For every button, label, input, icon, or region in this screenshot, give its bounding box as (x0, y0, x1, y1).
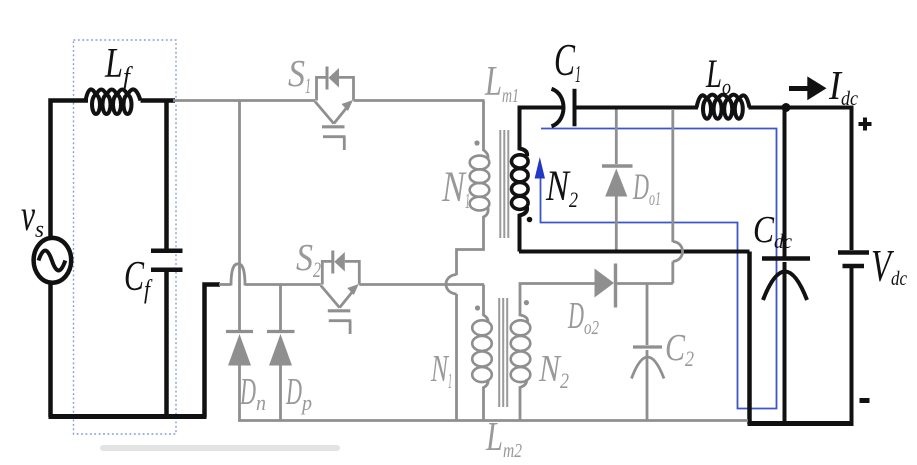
transformer1 dot primary (474, 140, 479, 145)
wire hop of N1 lead over S2 rail (446, 275, 457, 295)
wire vs top (51, 101, 89, 238)
wire bottom left rail (49, 414, 207, 419)
wire gray top rail Cf to S1 (173, 99, 315, 102)
wire Do2 cathode to C2 junction (616, 282, 673, 285)
diode of S1 (329, 68, 340, 88)
wire Vdc branch top (850, 106, 854, 251)
sine symbol of vs (39, 251, 66, 271)
switch S2 (IGBT with antiparallel diode) (321, 251, 360, 335)
caption smudge artifact (100, 445, 340, 451)
arrow of S2 (347, 284, 359, 295)
diode Dn bar (226, 330, 253, 333)
wire Lo to corner (749, 106, 854, 110)
blue current arrow head (535, 157, 545, 179)
inductor Lo (697, 95, 750, 119)
wire Vdc branch bottom (850, 268, 854, 424)
transformer1 secondary N2 lead top (520, 108, 563, 157)
wire N1 lead to bottom rail (455, 294, 458, 421)
wire vs bottom (48, 284, 53, 418)
diode of S2 (334, 252, 345, 272)
diode Do2 bar (614, 264, 617, 308)
transformer2 core (499, 298, 507, 407)
diode Do2 triangle (595, 269, 615, 298)
transformer2 winding N1 (472, 320, 492, 382)
diode Do1 bar (602, 164, 633, 167)
wire bottom right rail (748, 421, 854, 426)
diode Do1 triangle (605, 169, 627, 197)
wire gray top rail S1 to transformer1 (354, 99, 485, 102)
diode Do1 lead bottom (615, 196, 618, 250)
transformer2 dot secondary (524, 300, 529, 305)
transformer1 core (500, 130, 508, 238)
wire Cf top (164, 101, 169, 249)
capacitor C1 curved plate (552, 89, 564, 127)
wire hop of Do2 riser over N2 return wire (673, 242, 683, 262)
wire Lf to Cf node (141, 98, 176, 103)
wire C1 to Lo (575, 106, 699, 110)
wire C2 branch bottom (646, 350, 649, 421)
wire Cdc branch top (783, 108, 787, 258)
battery Vdc short plate (843, 264, 865, 269)
wire Dp drop (279, 285, 282, 332)
wire return riser (747, 252, 752, 425)
transformer1 dot secondary (527, 217, 533, 223)
switch S1 (IGBT with antiparallel diode) (315, 67, 354, 151)
transformer2 N1 lead bottom (484, 379, 489, 421)
wire N2 bottom to return bend (519, 250, 750, 254)
minus sign (860, 398, 870, 403)
inductor Lf (86, 89, 141, 114)
wire S2 rail left segment with hop over Dn (219, 283, 231, 286)
wire hop over Dn line (231, 264, 245, 286)
wire C2 branch top (646, 284, 649, 346)
transformer2 dot primary (475, 305, 480, 310)
diode Dp triangle (269, 334, 292, 366)
transformer1 winding N2 (512, 155, 529, 210)
capacitor Cdc curved plate (763, 272, 807, 301)
wire Do2 riser lower (671, 262, 674, 284)
node output junction (782, 103, 791, 112)
wire S2 to transformer2 (359, 283, 484, 286)
capacitor C2 curved plate (632, 357, 665, 379)
capacitor Cdc flat plate (762, 256, 810, 261)
diode Dp bar (267, 330, 295, 333)
capacitor Cf (151, 251, 183, 270)
plus sign (859, 118, 872, 131)
transformer2 N2 lead bottom (520, 379, 527, 421)
wire gray bottom rail (238, 419, 748, 422)
arrow of S1 (342, 100, 354, 111)
transformer1 winding N1 (470, 156, 490, 211)
transformer2 winding N2 (511, 320, 531, 382)
wire Cf bottom (164, 272, 169, 417)
capacitor C1 flat plate (573, 89, 577, 127)
wire Cdc branch bottom (783, 262, 787, 424)
transformer1 N1 lead bottom with jog and hop over S2 rail (457, 208, 489, 275)
dashed filter box around Lf and Cf (74, 40, 177, 434)
wire black riser to S2 rail (205, 285, 221, 418)
transformer2 primary N1 lead top (484, 285, 489, 323)
node Dn drop from top rail (238, 102, 241, 332)
wire Dp bottom (279, 365, 282, 421)
wire Do2 riser upper (671, 109, 674, 242)
diode Dn triangle (228, 334, 251, 366)
transformer1 N2 lead bottom (520, 207, 528, 252)
source vs (34, 238, 72, 283)
capacitor C2 flat plate (633, 345, 662, 348)
blue current loop (541, 129, 777, 409)
wire S2 rail to S2 (245, 283, 321, 286)
battery Vdc long plate (838, 250, 869, 255)
transformer1 primary N1 lead top (484, 101, 489, 159)
diode Do1 lead top (615, 110, 618, 165)
wire Dn bottom (238, 365, 241, 421)
arrow Idc (789, 86, 812, 91)
transformer2 secondary N2 lead top (520, 284, 596, 323)
